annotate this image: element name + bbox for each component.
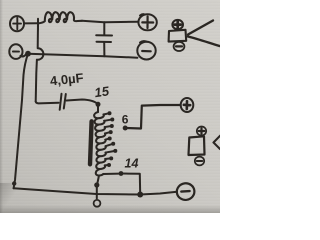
wire tap14 down to bottom junction bbox=[121, 174, 140, 195]
transformer T1 core bar bbox=[90, 121, 92, 164]
transformer tap stubs with dots bbox=[103, 113, 119, 174]
svg-text:6: 6 bbox=[122, 113, 129, 127]
terminal MINUS output (right) bbox=[137, 41, 155, 59]
sketch doodle top-right: box bbox=[169, 30, 187, 42]
transformer T1 primary lead from pin 15 bbox=[97, 104, 99, 112]
wire corner to capacitor C2 bbox=[36, 102, 59, 104]
sketch doodle top-right: minus circle bbox=[174, 42, 185, 51]
wire - rail input to output bbox=[28, 54, 137, 58]
wire junction to - output2 bbox=[140, 192, 177, 195]
wire bottom rail bbox=[14, 188, 140, 194]
node bottom junction dot bbox=[137, 192, 143, 198]
node corner blob bbox=[12, 181, 16, 185]
capacitor C1 bottom lead bbox=[103, 42, 105, 56]
node tap6 dot bbox=[123, 126, 128, 131]
terminal MINUS input (left) bbox=[9, 44, 26, 59]
svg-text:14: 14 bbox=[125, 157, 139, 171]
wire + input to T junction bbox=[24, 22, 38, 24]
terminal MINUS output2 bbox=[176, 182, 196, 201]
sketch doodle bottom-right: minus circle bbox=[195, 157, 204, 166]
sketch doodle bottom-right: plus circle bbox=[197, 127, 206, 136]
svg-text:4,0µF: 4,0µF bbox=[49, 70, 84, 88]
wire tap6 to + output2 bbox=[125, 105, 180, 129]
transformer T1 winding bbox=[94, 112, 106, 176]
transformer winding bottom lead bbox=[97, 176, 99, 186]
terminal open circle bbox=[94, 200, 101, 207]
inductor L1 coil bbox=[39, 12, 83, 23]
wire winding bottom to rail and stub to open terminal bbox=[96, 185, 98, 199]
capacitor C2 plates bbox=[60, 94, 66, 110]
terminal PLUS output (top-right) bbox=[138, 14, 156, 30]
node winding bottom dot bbox=[94, 182, 99, 187]
capacitor C1 top lead bbox=[103, 22, 105, 35]
junction dot bbox=[25, 51, 31, 57]
wire from T down with hop over minus rail bbox=[36, 23, 44, 101]
terminal PLUS output2 bbox=[181, 98, 194, 112]
wire C2 to transformer pin 15 bbox=[67, 100, 98, 105]
capacitor C1 plates bbox=[96, 35, 112, 42]
sketch doodle top-right: rays bbox=[188, 21, 213, 35]
node T junction tick bbox=[37, 19, 39, 30]
wire coil to + output bbox=[82, 21, 139, 23]
sketch doodle bottom-right: rays bbox=[214, 136, 221, 149]
sketch doodle top-right: plus circle bbox=[172, 20, 183, 29]
node pin15 corner dot bbox=[96, 102, 101, 107]
wire branch minus-junction down-left to bottom corner bbox=[14, 54, 28, 189]
svg-text:15: 15 bbox=[93, 83, 110, 100]
sketch doodle bottom-right: box bbox=[189, 136, 205, 155]
terminal PLUS input (top-left) bbox=[10, 16, 24, 31]
